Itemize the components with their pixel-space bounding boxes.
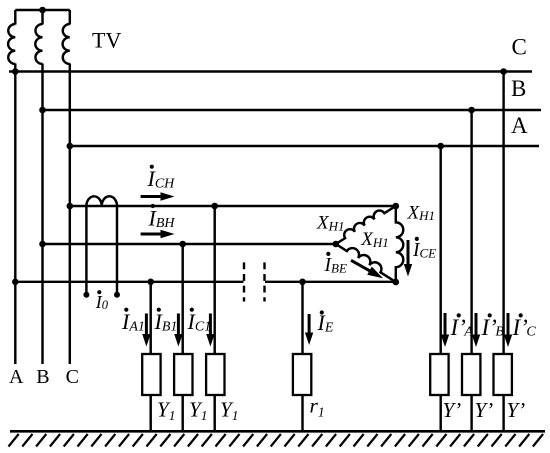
label I_E current [320, 310, 324, 314]
svg-text:B: B [511, 76, 526, 101]
voltage transformer TV winding phase A (left coil) [8, 24, 15, 64]
wire: Y'-2 to ground [470, 395, 472, 431]
svg-text:A: A [511, 113, 528, 138]
wire: bus C (top) [9, 70, 532, 72]
wire: CT secondary terminal 1 [85, 206, 87, 295]
wire: line to X_H1 top (I_CH path) [70, 205, 396, 207]
wire: r1 to ground [301, 395, 303, 431]
svg-text:C: C [66, 366, 79, 388]
arrow: I_C1 direction [209, 314, 212, 337]
label I_B1 current [157, 308, 161, 312]
node: bus B start [39, 107, 46, 114]
winding X_H1 bottom side (left vertex to bottom vertex) [336, 244, 396, 282]
arrow: I_A1 direction [145, 314, 148, 337]
node: bus C / phase A vertical [12, 68, 19, 75]
node: triangle bottom vertex [393, 279, 400, 286]
node: line3 / first arrester drop [147, 279, 154, 286]
wire: CT secondary terminal 2 [116, 206, 118, 295]
arrow: I_CH direction [141, 195, 163, 198]
ground line [10, 430, 545, 433]
arrester Y'-1 body [430, 354, 448, 395]
ground hatching [9, 434, 544, 447]
node: bus C / right drop [500, 68, 507, 75]
wire: TV primary top link [15, 9, 70, 11]
voltage transformer TV winding phase B (middle coil) [35, 24, 42, 64]
winding X_H1 right side (top to bottom vertex) [396, 206, 403, 282]
arrow: I'B direction [475, 313, 478, 337]
wire: Y'-3 to ground [502, 395, 504, 431]
node: TV top neutral junction [39, 7, 46, 14]
wire: right drop A [439, 146, 441, 354]
node: line1 tap on phase C vertical [67, 203, 74, 210]
node: CT terminal 1 end [83, 292, 89, 298]
node: bus B / right drop [468, 107, 475, 114]
node: line2 tap on phase B vertical [39, 241, 46, 248]
arrester Y1-3 body [206, 354, 224, 395]
node: triangle top vertex X_H1 [393, 203, 400, 210]
current transformer secondary coil [86, 196, 117, 206]
wire: phase A vertical (left) [14, 10, 16, 25]
label I'A current [457, 313, 461, 317]
node: triangle left vertex X_H1 [333, 241, 340, 248]
arrester Y'-3 body [494, 354, 512, 395]
wire: line 3 left section (to break) [15, 281, 243, 283]
arrow: I_BH direction [141, 233, 163, 236]
label I_BH current [151, 204, 155, 208]
arrow: I_CE direction [407, 240, 410, 266]
node: line2 / second arrester drop [179, 241, 186, 248]
wire: bus B (middle) [43, 109, 542, 111]
wire: Y1-3 to ground [213, 395, 215, 431]
node: CT terminal 2 end [114, 292, 120, 298]
arrow: I'A direction [444, 313, 447, 337]
wire: drop to resistor r1 [301, 282, 303, 354]
dashed break right bar [263, 262, 265, 301]
svg-text:C: C [512, 35, 527, 60]
node: bus A start [67, 143, 74, 150]
wire: Y1-2 to ground [181, 395, 183, 431]
wire: Y1-1 to ground [149, 395, 151, 431]
label I'C current [519, 313, 523, 317]
svg-text:A: A [9, 366, 24, 388]
resistor r1 body [293, 354, 311, 395]
svg-text:TV: TV [92, 28, 121, 53]
arrow: I_B1 direction [177, 314, 180, 337]
svg-text:B: B [36, 366, 49, 388]
arrester Y1-1 body [142, 354, 160, 395]
label I_C1 current [190, 308, 194, 312]
wire: drop to arrester Y1-2 [181, 244, 183, 354]
arrow: I_BE direction [351, 260, 371, 271]
arrow: I_E direction [308, 314, 311, 335]
wire: line to X_H1 left (I_BH path) [43, 243, 336, 245]
wire: phase C vertical (left) [69, 10, 71, 25]
arrow: I'C direction [507, 313, 510, 337]
voltage transformer TV winding phase C (right coil) [63, 24, 70, 64]
dashed break left bar [243, 262, 245, 301]
node: line3 tap on phase A vertical [12, 279, 19, 286]
winding X_H1 top side (left vertex to top vertex) [336, 206, 396, 244]
wire: drop to arrester Y1-1 [149, 282, 151, 354]
wire: Y'-1 to ground [439, 395, 441, 431]
label I_CE current [415, 237, 419, 241]
node: line3 / r1 drop [299, 279, 306, 286]
wire: bus A (bottom) [70, 145, 539, 147]
wire: line 3 right section (to X_H1 bottom) [265, 281, 396, 283]
wire: drop to arrester Y1-3 [213, 206, 215, 354]
arrester Y1-2 body [174, 354, 192, 395]
label I0 current [97, 290, 101, 294]
svg-text:Y’: Y’ [507, 398, 526, 422]
node: line1 / third arrester drop [211, 203, 218, 210]
wire: right drop B [470, 110, 472, 354]
wire: phase B vertical (left) [41, 10, 43, 25]
label I'B current [488, 313, 492, 317]
label I_BE current [326, 252, 330, 256]
label I_A1 current [124, 308, 128, 312]
node: bus A / right drop [437, 143, 444, 150]
arrester Y'-2 body [462, 354, 480, 395]
wire: right drop C [502, 72, 504, 355]
label I_CH current [150, 165, 154, 169]
svg-text:Y’: Y’ [475, 398, 494, 422]
svg-text:Y’: Y’ [443, 398, 462, 422]
